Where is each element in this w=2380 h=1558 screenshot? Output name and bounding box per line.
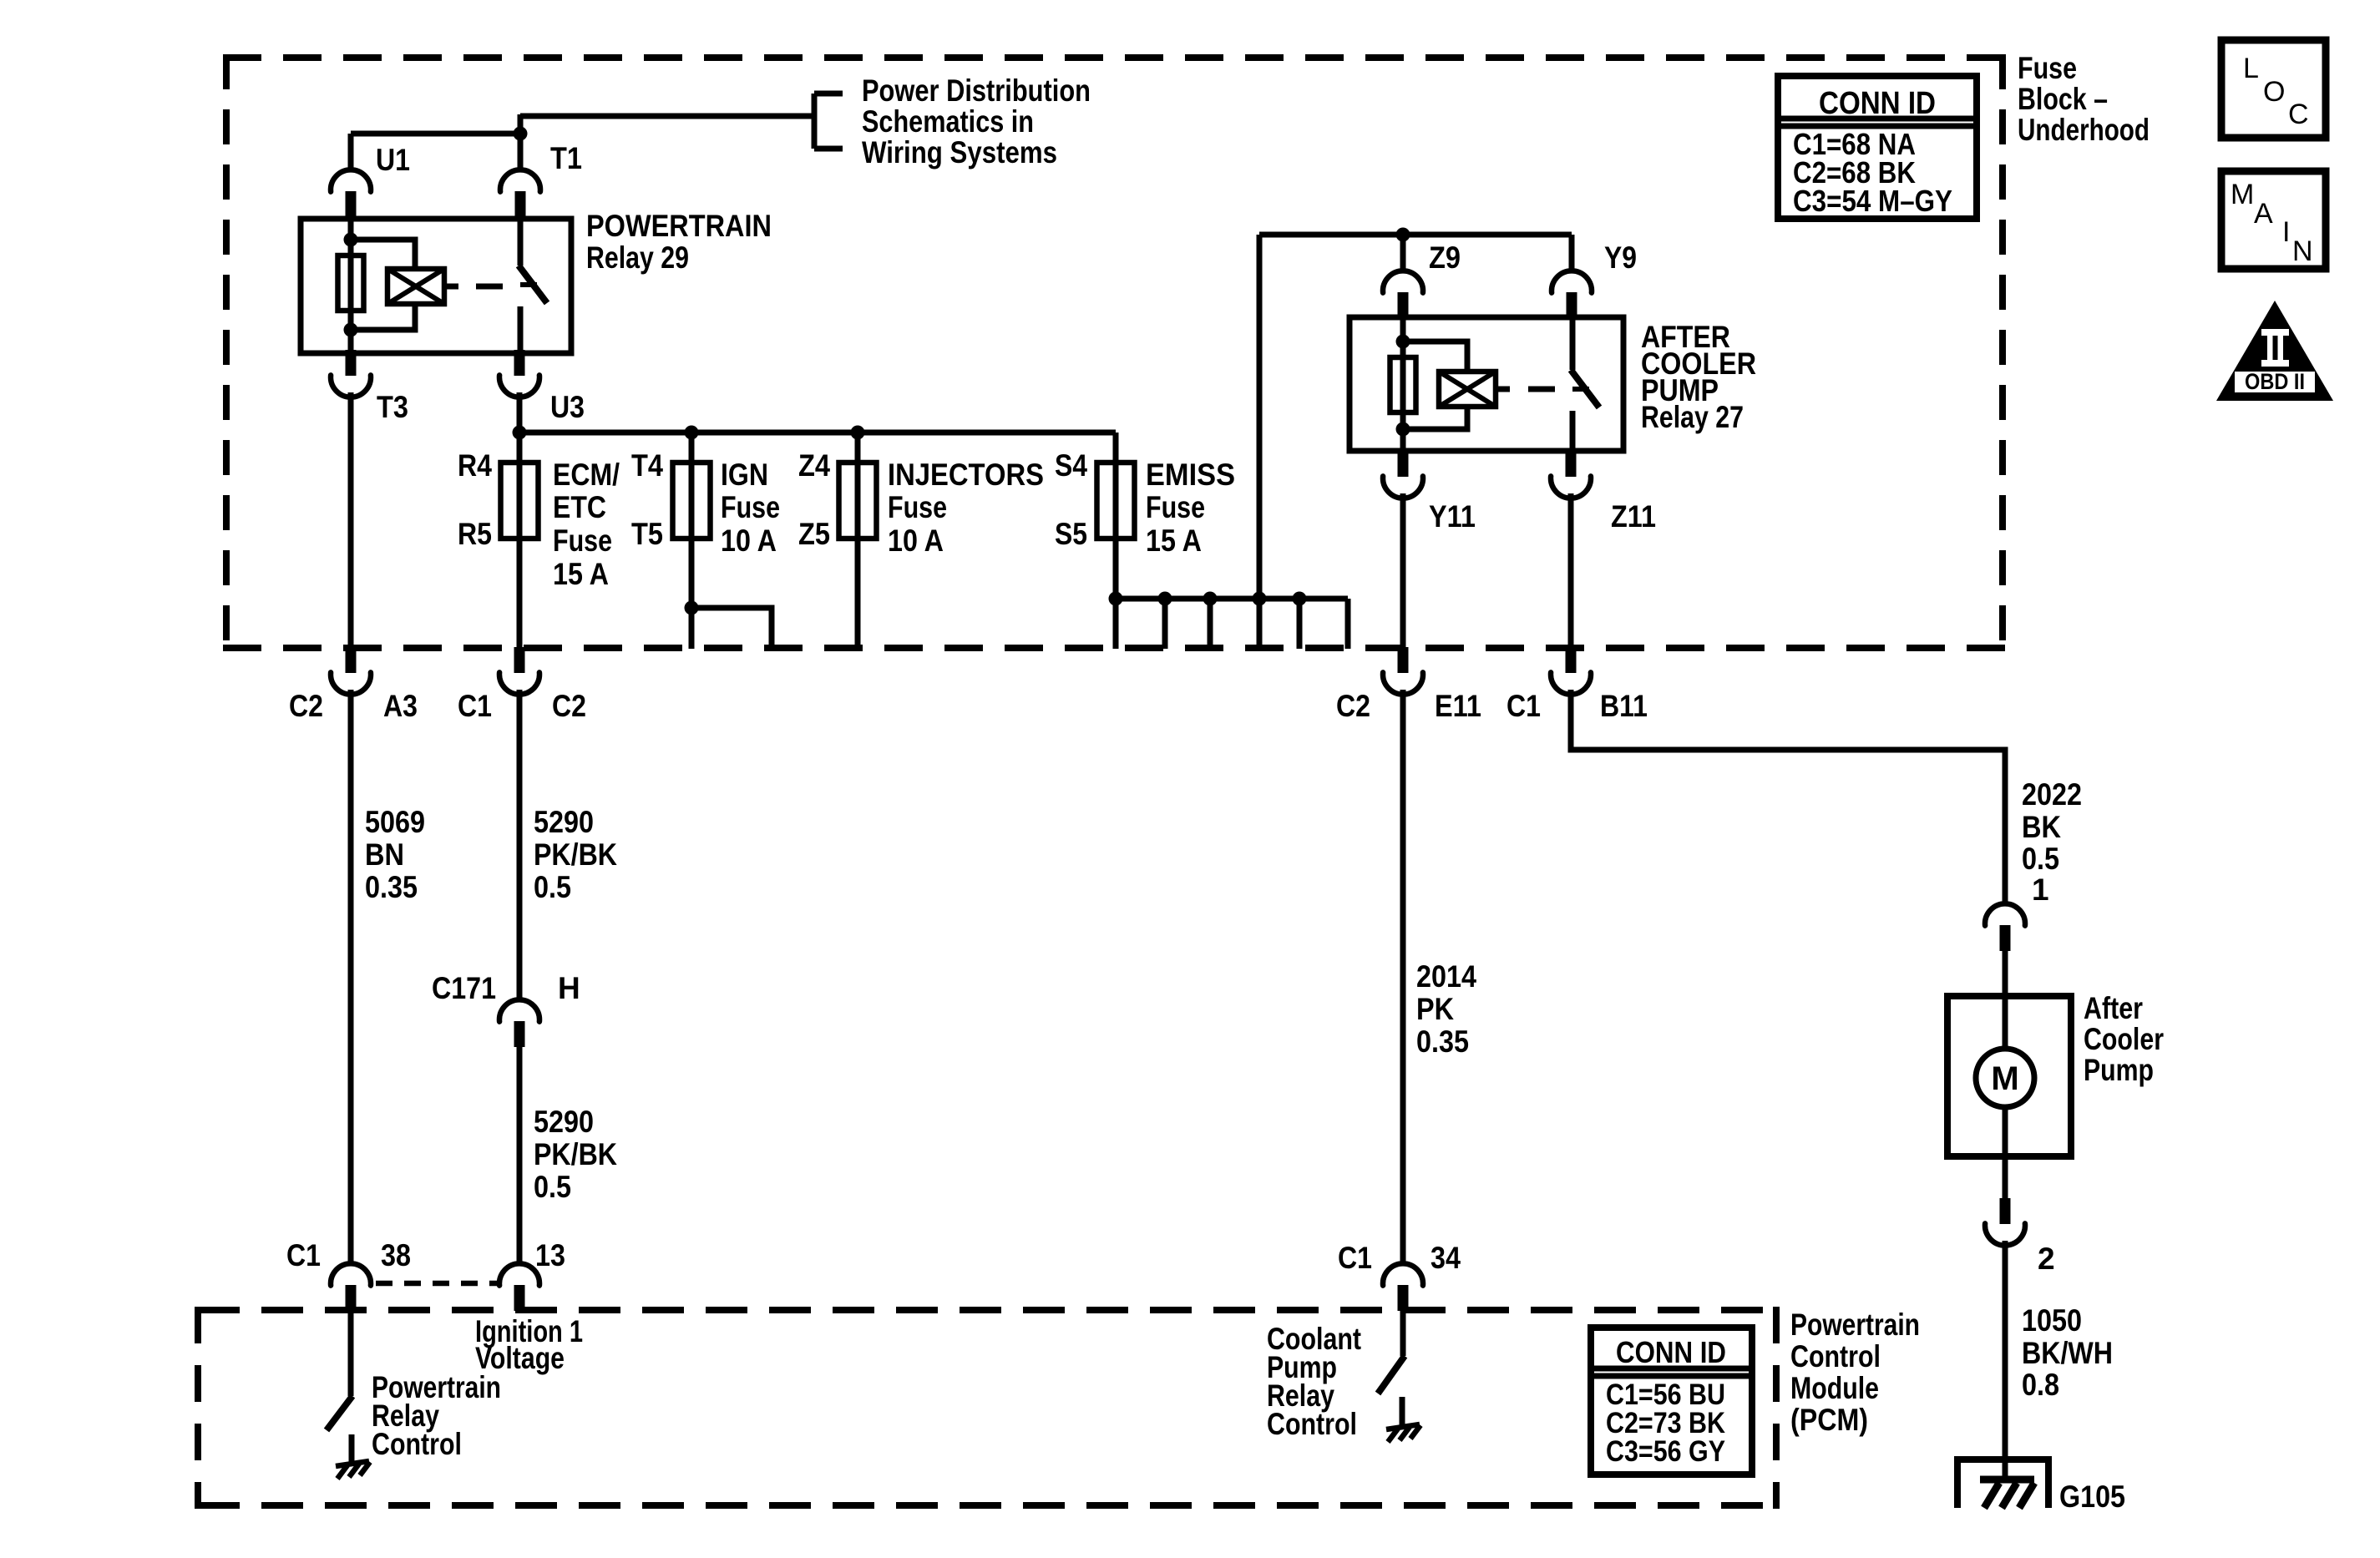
wire IGN fuse drop	[689, 432, 695, 649]
svg-text:Z9: Z9	[1429, 240, 1461, 275]
connector C2 pin A3 exit	[331, 647, 371, 695]
svg-text:PK/BK: PK/BK	[534, 837, 617, 872]
LOC symbol box	[2221, 40, 2326, 138]
MAIN symbol box	[2221, 171, 2326, 269]
connector C1 pin 38	[331, 1263, 371, 1311]
svg-text:Control: Control	[1267, 1407, 1357, 1441]
svg-text:Control: Control	[372, 1427, 462, 1461]
svg-text:C1: C1	[458, 689, 492, 723]
relay27 coil loop wire	[1403, 341, 1467, 429]
svg-text:Z4: Z4	[798, 448, 830, 483]
svg-text:15 A: 15 A	[1146, 524, 1202, 558]
svg-text:PK/BK: PK/BK	[534, 1137, 617, 1171]
node bus at INJECTORS fuse	[851, 426, 865, 440]
svg-text:G105: G105	[2059, 1480, 2125, 1514]
svg-text:Fuse: Fuse	[1146, 490, 1205, 524]
connector C171 pin H	[499, 999, 539, 1047]
connector pin 2	[1985, 1198, 2025, 1246]
svg-text:U3: U3	[550, 390, 585, 424]
svg-text:5290: 5290	[534, 805, 594, 839]
svg-text:10 A: 10 A	[888, 524, 944, 558]
connector pin Z11	[1551, 451, 1591, 498]
svg-text:Z5: Z5	[798, 517, 830, 551]
svg-text:2022: 2022	[2022, 777, 2082, 812]
svg-text:34: 34	[1431, 1241, 1461, 1275]
wire 2014 PK circuit	[1400, 690, 1406, 1264]
node relay27 coil top	[1396, 335, 1410, 349]
wire to power distribution note	[520, 114, 814, 119]
svg-text:C3=56 GY: C3=56 GY	[1606, 1435, 1725, 1468]
svg-text:15 A: 15 A	[553, 557, 609, 591]
wire relay 27 feed riser	[1257, 235, 1263, 649]
connector C1 pin 34	[1383, 1263, 1423, 1311]
fuse F4 EMISS 15A	[1097, 463, 1135, 539]
svg-text:Power Distribution: Power Distribution	[862, 73, 1091, 108]
svg-text:Fuse: Fuse	[721, 490, 780, 524]
wire EMISS fuse drop	[1113, 432, 1119, 649]
node emiss bus 2	[1158, 592, 1172, 606]
node emiss bus 3	[1203, 592, 1218, 606]
wire U1 to T1 node	[351, 131, 520, 137]
wire pump output	[2003, 1156, 2008, 1200]
svg-text:PK: PK	[1416, 992, 1454, 1026]
connector C1 pair dashes	[376, 1281, 499, 1287]
relay27 solenoid X-box	[1439, 372, 1496, 407]
svg-text:ETC: ETC	[553, 490, 606, 524]
svg-text:C171: C171	[432, 971, 496, 1005]
svg-text:B11: B11	[1600, 689, 1648, 723]
wire U1 drop	[348, 134, 354, 172]
svg-text:0.8: 0.8	[2022, 1368, 2059, 1402]
wire Y11 to boundary	[1400, 493, 1406, 649]
svg-text:2014: 2014	[1416, 959, 1476, 994]
node Z9 tap	[1396, 228, 1410, 242]
svg-text:R4: R4	[458, 448, 492, 483]
relay29 coil element	[338, 255, 364, 311]
svg-text:C2: C2	[1336, 689, 1370, 723]
wire Z11 to boundary	[1568, 493, 1574, 649]
wire U3 to ECM fuse and exit	[517, 392, 523, 649]
svg-text:0.5: 0.5	[2022, 842, 2059, 876]
wire IGN output branch to boundary	[691, 608, 772, 649]
svg-text:S4: S4	[1055, 448, 1087, 483]
Fuse Block - Underhood dashed boundary box	[223, 54, 2006, 651]
svg-text:CONN ID: CONN ID	[1819, 86, 1936, 121]
svg-text:N: N	[2292, 235, 2313, 267]
svg-text:Y11: Y11	[1429, 499, 1476, 534]
svg-text:BK/WH: BK/WH	[2022, 1336, 2113, 1370]
svg-text:M: M	[2231, 179, 2254, 210]
svg-text:0.35: 0.35	[1416, 1024, 1469, 1059]
svg-text:5290: 5290	[534, 1105, 594, 1139]
svg-text:Schematics in: Schematics in	[862, 104, 1034, 139]
svg-text:BN: BN	[365, 837, 404, 872]
svg-text:0.5: 0.5	[534, 870, 571, 904]
CONN ID table PCM	[1591, 1328, 1752, 1475]
wire pump feed	[2003, 948, 2008, 1156]
svg-text:Relay 29: Relay 29	[586, 240, 689, 275]
svg-text:2: 2	[2038, 1242, 2055, 1276]
svg-text:E11: E11	[1435, 689, 1481, 723]
relay29 solenoid X-box	[387, 269, 444, 304]
svg-text:Powertrain: Powertrain	[1790, 1308, 1920, 1342]
wire relay27 top feed	[1259, 232, 1572, 238]
svg-text:10 A: 10 A	[721, 524, 777, 558]
relay27 mechanical link	[1496, 387, 1555, 392]
fuse F1 ECM/ETC 15A	[501, 463, 539, 539]
node relay29 coil top	[344, 233, 358, 247]
ground chassis PCM right	[1386, 1424, 1420, 1442]
wire 2022 BK circuit	[1571, 690, 2005, 904]
wire 5290 PK/BK upper	[517, 690, 523, 1000]
node bus at IGN fuse	[685, 426, 699, 440]
svg-text:CONN ID: CONN ID	[1616, 1335, 1726, 1369]
svg-text:U1: U1	[376, 143, 410, 177]
svg-text:(PCM): (PCM)	[1790, 1403, 1868, 1437]
node emiss bus 5	[1293, 592, 1307, 606]
svg-text:ECM/: ECM/	[553, 458, 620, 492]
Powertrain Control Module dashed box	[198, 1307, 1776, 1509]
connector pin Y9	[1552, 271, 1592, 318]
fuse feed bus	[519, 430, 1116, 436]
after cooler pump box	[1947, 996, 2071, 1156]
wire relay27 coil path	[1400, 317, 1406, 451]
fuse F2 IGN 10A	[673, 463, 711, 539]
connector pin Y11	[1383, 451, 1423, 498]
svg-text:After: After	[2084, 991, 2143, 1025]
svg-text:A: A	[2254, 198, 2273, 230]
svg-text:BK: BK	[2022, 810, 2061, 844]
wire relay29 coil path	[348, 219, 354, 353]
svg-text:0.35: 0.35	[365, 870, 418, 904]
connector pin T1	[500, 169, 540, 217]
connector C1 pin C2 exit	[499, 647, 539, 695]
wire Y9 drop	[1569, 235, 1575, 273]
connector C2 pin E11 exit	[1383, 647, 1423, 695]
svg-text:C2: C2	[552, 689, 586, 723]
svg-text:C1: C1	[1338, 1241, 1372, 1275]
svg-text:T5: T5	[631, 517, 663, 551]
powertrain relay control switch	[327, 1310, 352, 1462]
svg-text:C1: C1	[286, 1238, 321, 1272]
coolant pump relay control switch	[1378, 1310, 1405, 1425]
wire emiss stub 3	[1208, 599, 1213, 649]
svg-text:T3: T3	[377, 390, 408, 424]
relay27 switch contact	[1571, 317, 1599, 451]
relay K29 POWERTRAIN Relay 29 box	[301, 219, 571, 353]
wire T1 riser	[518, 114, 524, 172]
CONN ID table fuse block	[1778, 76, 1977, 219]
svg-text:Y9: Y9	[1604, 240, 1637, 275]
node relay29 coil bottom	[344, 323, 358, 337]
svg-text:Control: Control	[1790, 1339, 1881, 1373]
EMISS output bus	[1116, 596, 1348, 602]
svg-text:Wiring Systems: Wiring Systems	[862, 135, 1057, 169]
svg-text:Pump: Pump	[2084, 1053, 2154, 1087]
wire emiss bus end drop	[1345, 599, 1351, 649]
svg-text:1050: 1050	[2022, 1303, 2082, 1338]
wire 1050 BK/WH circuit	[2003, 1241, 2008, 1481]
node bus at U3 wire	[513, 426, 527, 440]
svg-text:C2: C2	[289, 689, 323, 723]
svg-text:13: 13	[535, 1238, 565, 1272]
ground chassis PCM left	[336, 1461, 370, 1479]
wire INJECTORS fuse drop	[855, 432, 861, 649]
svg-text:Cooler: Cooler	[2084, 1022, 2164, 1056]
relay29 switch contact	[519, 219, 547, 353]
node emiss bus 4	[1253, 592, 1267, 606]
connector pin U1	[331, 169, 371, 217]
wire 5290 PK/BK lower	[517, 1046, 523, 1264]
svg-text:Block –: Block –	[2018, 82, 2108, 116]
fuse F3 INJECTORS 10A	[839, 463, 877, 539]
svg-text:Relay 27: Relay 27	[1641, 400, 1744, 434]
connector pin Z9	[1383, 271, 1423, 318]
svg-text:EMISS: EMISS	[1146, 458, 1235, 492]
svg-text:Underhood: Underhood	[2018, 113, 2150, 147]
svg-text:O: O	[2263, 76, 2285, 108]
svg-text:Z11: Z11	[1611, 499, 1656, 534]
wire Z9 drop	[1400, 235, 1406, 273]
svg-text:R5: R5	[458, 517, 492, 551]
svg-text:Fuse: Fuse	[2018, 51, 2077, 85]
svg-text:C: C	[2288, 99, 2309, 130]
wire T3 to fuse block exit	[348, 392, 354, 649]
svg-text:OBD II: OBD II	[2245, 369, 2305, 394]
node emiss bus 1	[1109, 592, 1123, 606]
svg-text:T4: T4	[631, 448, 663, 483]
connector C1 pin B11 exit	[1551, 647, 1591, 695]
node junction at T1 feed	[514, 127, 528, 141]
svg-text:Fuse: Fuse	[888, 490, 947, 524]
svg-text:C1: C1	[1506, 689, 1541, 723]
svg-text:POWERTRAIN: POWERTRAIN	[586, 209, 772, 243]
svg-text:5069: 5069	[365, 805, 425, 839]
svg-text:INJECTORS: INJECTORS	[888, 458, 1044, 492]
svg-text:L: L	[2243, 53, 2259, 84]
wire emiss stub 2	[1162, 599, 1168, 649]
connector pin T3	[331, 350, 371, 397]
svg-text:I: I	[2282, 216, 2290, 248]
svg-text:0.5: 0.5	[534, 1170, 571, 1204]
wire emiss stub 5	[1297, 599, 1303, 649]
svg-text:H: H	[558, 971, 580, 1005]
svg-text:IGN: IGN	[721, 458, 768, 492]
node relay27 coil bottom	[1396, 422, 1410, 437]
svg-text:A3: A3	[383, 689, 418, 723]
relay29 mechanical link	[444, 284, 503, 290]
svg-text:M: M	[1991, 1060, 2018, 1097]
relay27 coil element	[1390, 357, 1416, 412]
svg-text:S5: S5	[1055, 517, 1087, 551]
relay29 coil loop wire	[351, 240, 415, 330]
svg-text:Fuse: Fuse	[553, 524, 612, 558]
svg-text:38: 38	[381, 1238, 411, 1272]
svg-text:T1: T1	[550, 141, 582, 175]
relay K27 AFTER COOLER PUMP Relay 27 box	[1350, 317, 1623, 451]
off-page bracket	[814, 94, 843, 149]
svg-text:Module: Module	[1790, 1371, 1879, 1405]
connector pin 13	[499, 1263, 539, 1311]
svg-text:1: 1	[2032, 873, 2049, 907]
motor M circle	[1976, 1049, 2034, 1107]
connector pin U3	[499, 350, 539, 397]
wire 5069 BN circuit	[348, 690, 354, 1264]
svg-text:C3=54 M–GY: C3=54 M–GY	[1793, 184, 1952, 218]
OBD II symbol	[2216, 301, 2333, 401]
node IGN fuse output branch	[685, 601, 699, 615]
connector pin 1	[1985, 903, 2025, 951]
ground G105	[1957, 1459, 2048, 1508]
